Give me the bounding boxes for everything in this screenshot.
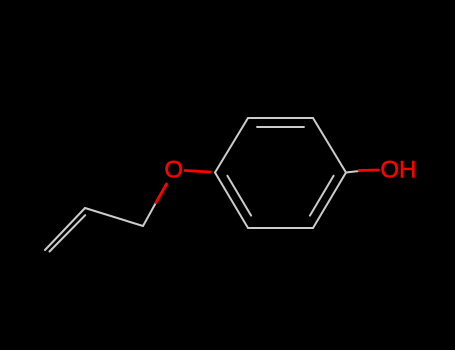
- wire ring edge L-TL: [215, 118, 248, 173]
- svg-text:O: O: [164, 157, 183, 184]
- wire ring edge R-BR: [313, 173, 346, 229]
- wire bond C1-C2: [85, 208, 143, 226]
- wire red bond O-ring: [185, 171, 210, 173]
- wire double bond C2=C3 line a: [45, 208, 85, 250]
- wire inner double lower-right: [310, 176, 334, 216]
- wire ring edge TL-TR: [248, 117, 313, 119]
- wire ring edge BR-BL: [248, 227, 313, 229]
- wire ring edge TR-R: [313, 118, 346, 173]
- wire white half bond R to OH: [346, 171, 359, 173]
- benzene ring: [45, 118, 359, 252]
- wire inner double lower-left: [227, 176, 251, 216]
- wire inner double top: [257, 126, 304, 128]
- svg-text:OH: OH: [380, 157, 416, 184]
- wire white half bond O to C1: [143, 203, 156, 227]
- wire red half bond O-C1: [156, 184, 167, 203]
- wire double bond C2=C3 line b: [50, 215, 86, 251]
- wire ring edge BL-L: [215, 173, 248, 229]
- wire red bond OH: [359, 169, 378, 172]
